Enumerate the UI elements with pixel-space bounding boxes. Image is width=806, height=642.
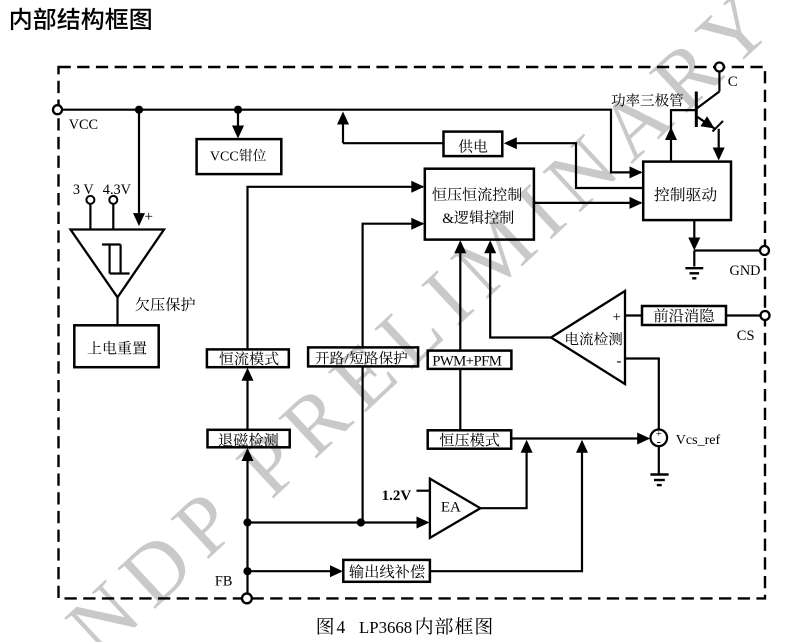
arrowhead into 控制驱动 upper [630, 166, 643, 178]
arrowhead EA up [521, 440, 533, 453]
label 欠压保护 [135, 297, 195, 311]
svg-text:4.3V: 4.3V [103, 182, 132, 198]
label 开路/短路保护 [315, 351, 343, 364]
transistor Q1 collector [718, 72, 720, 92]
wire ground node to GND pin [694, 249, 760, 251]
box 开路/短路保护 [308, 347, 418, 366]
label 恒流模式 [219, 351, 278, 365]
box 供电 [444, 132, 503, 157]
title 内部结构框图 [11, 8, 151, 30]
wire 1.2V dash [417, 490, 430, 492]
wire EA output [480, 445, 526, 508]
arrowhead into 输出线补偿 [330, 565, 343, 577]
svg-text:+: + [613, 310, 621, 326]
label 输出线补偿 [349, 564, 425, 578]
wire 恒压模式 to Vcs_ref [511, 437, 644, 439]
label 功率三极管 [612, 93, 683, 106]
junction FB/EA [243, 518, 251, 526]
wire 开路保护 to 恒压恒流控制 [363, 224, 423, 348]
wire PWM+PFM up [459, 246, 461, 351]
caption 图 4 LP3668 内部框图 [318, 618, 334, 635]
wire source to ground [658, 446, 660, 474]
arrowhead into 恒流模式 bottom [242, 368, 254, 381]
label 前沿消隐 [654, 308, 714, 322]
svg-text:+: + [145, 209, 153, 225]
arrowhead emitter into 控制驱动 [713, 148, 725, 161]
arrowhead into Vcs_ref [637, 433, 650, 445]
terminal C [715, 63, 724, 72]
arrowhead 输出线补偿 up [576, 440, 588, 453]
reference input circle 3V [86, 196, 94, 204]
box 上电重置 [74, 325, 158, 367]
wire FB net to EA [248, 521, 424, 523]
svg-text:VCC: VCC [69, 117, 98, 133]
wire 3V stub [89, 204, 91, 230]
hysteresis symbol [102, 243, 121, 245]
svg-text:LP3668: LP3668 [359, 618, 412, 637]
svg-text:VCC: VCC [210, 150, 239, 165]
svg-text:GND: GND [730, 263, 761, 279]
svg-text:EA: EA [441, 500, 461, 516]
arrowhead into control box bottom left [454, 240, 466, 253]
wire comparator to 上电重置 [116, 297, 118, 326]
ground symbol (控制驱动) [693, 251, 695, 267]
svg-text:1.2V: 1.2V [382, 488, 412, 504]
wire 供电 left lead [343, 142, 444, 144]
arrowhead base drive up [665, 127, 677, 140]
wire 输出线补偿 output [430, 445, 582, 571]
ground symbol (Vcs_ref) [650, 473, 668, 475]
arrowhead into 恒压恒流控制 left lower [411, 218, 424, 230]
wire 恒压恒流控制 to 控制驱动 [534, 202, 641, 204]
wire rail to VCC钳位 [237, 110, 239, 131]
wire 退磁检测 to 恒流模式 [246, 374, 248, 430]
wire + input to 前沿消隐 [625, 314, 642, 316]
terminal CS [761, 311, 770, 320]
svg-text:FB: FB [215, 574, 233, 590]
svg-text:4: 4 [337, 617, 346, 637]
arrowhead to ground node [688, 238, 700, 251]
op-amp EA [430, 479, 481, 538]
box VCC钳位 [197, 139, 282, 174]
svg-text:-: - [657, 433, 661, 448]
box PWM+PFM [428, 351, 512, 369]
junction FB/输出线补偿 [243, 567, 251, 575]
IC boundary (dashed) [59, 67, 766, 598]
wire - input to Vcs_ref [625, 359, 659, 430]
arrowhead into 恒压恒流控制 left upper [411, 181, 424, 193]
wire 开路保护 down to FB net [362, 366, 364, 522]
label 上电重置 [88, 341, 147, 354]
svg-text:PWM+PFM: PWM+PFM [432, 353, 502, 369]
wire FB up to 退磁检测 [246, 454, 248, 594]
junction on rail A [135, 106, 143, 114]
wire PWM+PFM to 恒压模式 [459, 369, 461, 430]
label 退磁检测 [219, 433, 278, 447]
box 退磁检测 [208, 430, 290, 448]
source Vcs_ref [651, 430, 668, 447]
label 恒压模式 [440, 433, 500, 447]
terminal FB [242, 594, 252, 604]
svg-text:-: - [617, 354, 622, 370]
label 控制驱动 [654, 187, 716, 202]
arrowhead into control box bottom right [484, 240, 496, 253]
arrowhead into EA - [417, 517, 430, 529]
arrowhead into 控制驱动 lower [630, 197, 643, 209]
emitter tick [713, 121, 724, 132]
box 输出线补偿 [343, 560, 430, 582]
arrowhead into 退磁检测 [242, 448, 254, 461]
label 恒压恒流控制 [432, 187, 521, 201]
transistor Q1 emitter [697, 117, 715, 129]
junction 开路/EA [357, 518, 365, 526]
terminal VCC [53, 105, 62, 114]
op-amp UVLO comparator [71, 230, 165, 298]
box 恒压恒流控制&逻辑控制 [425, 169, 534, 240]
wire rail to comparator + [138, 110, 140, 219]
box 恒流模式 [207, 349, 289, 367]
op-amp 电流检测 [551, 291, 625, 384]
wire 控制驱动 to 供电 [509, 143, 643, 188]
junction on rail B [234, 106, 242, 114]
transistor Q1 base bar [695, 92, 698, 128]
svg-text:CS: CS [737, 328, 755, 344]
wire 前沿消隐 to CS [726, 314, 760, 316]
svg-text:Vcs_ref: Vcs_ref [676, 433, 721, 448]
box 恒压模式 [428, 430, 512, 448]
label 供电 [459, 139, 488, 153]
wire FB to 输出线补偿 [248, 570, 338, 572]
arrowhead into VCC钳位 [232, 126, 244, 139]
wire emitter down [718, 129, 720, 155]
label 电流检测 [566, 332, 622, 346]
box 前沿消隐 [642, 306, 726, 325]
arrowhead into comparator + [133, 213, 145, 226]
wire 电流检测 output [490, 246, 551, 338]
terminal GND [760, 246, 769, 255]
wire VCC rail [58, 110, 642, 173]
wire 恒流模式 to 恒压恒流控制 [248, 187, 424, 350]
svg-text:NDP PRELIMINARY: NDP PRELIMINARY [50, 0, 797, 642]
arrowhead into 供电 [504, 137, 517, 149]
reference input circle 4.3V [109, 196, 117, 204]
box 控制驱动 [643, 162, 731, 221]
svg-text:&: & [442, 211, 454, 227]
wire 控制驱动 to ground [693, 220, 695, 244]
transistor Q1 base lead [671, 110, 696, 162]
wire 4.3V stub [112, 204, 114, 230]
svg-text:C: C [728, 74, 738, 90]
wire 供电 to rail [342, 117, 344, 143]
